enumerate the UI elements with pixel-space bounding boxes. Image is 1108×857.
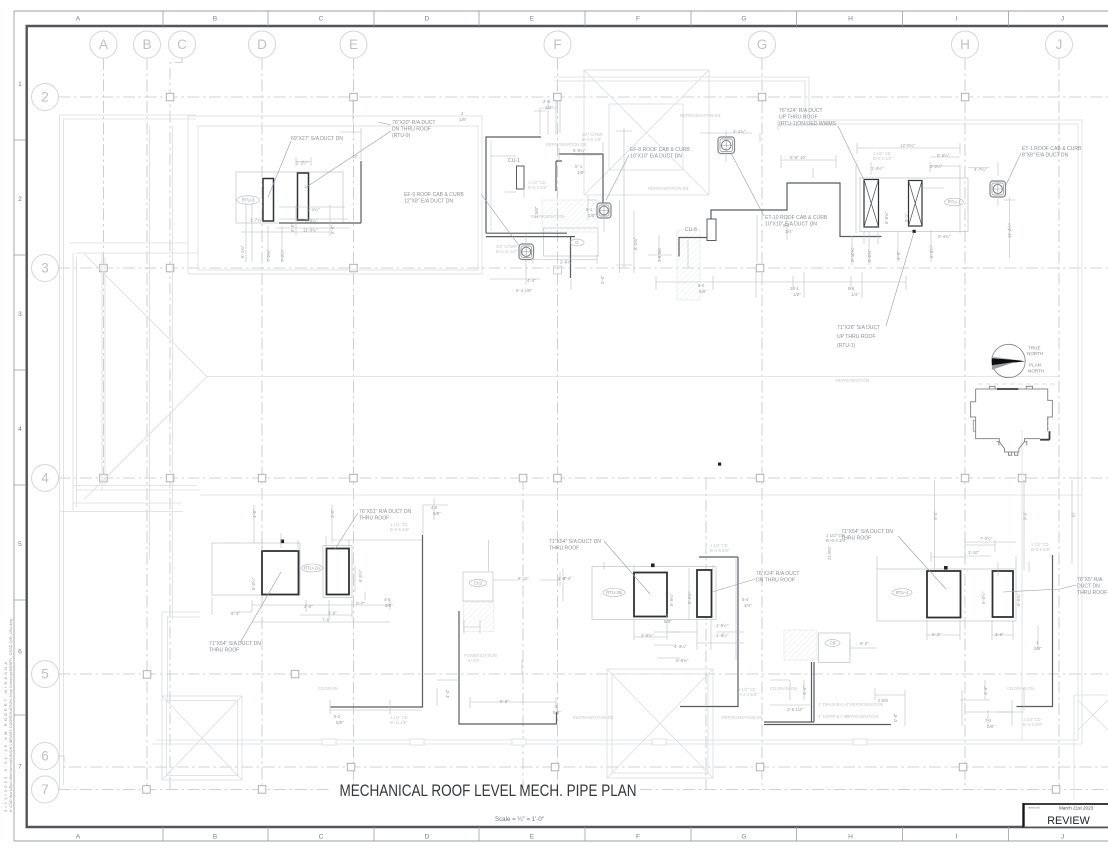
svg-text:CB: CB	[829, 641, 835, 646]
svg-text:10-1: 10-1	[790, 286, 799, 291]
svg-text:76"X51" R/A DUCT DN: 76"X51" R/A DUCT DN	[359, 509, 412, 515]
svg-text:7'-8": 7'-8"	[322, 618, 331, 623]
svg-text:B+2-6 5/8": B+2-6 5/8"	[710, 548, 730, 553]
svg-text:4'-4": 4'-4"	[445, 689, 450, 698]
svg-text:1'-5½": 1'-5½"	[716, 623, 729, 628]
svg-text:E: E	[349, 37, 358, 52]
svg-text:12"X8" E/A DUCT DN: 12"X8" E/A DUCT DN	[404, 199, 453, 205]
svg-text:8-0: 8-0	[698, 283, 705, 288]
svg-text:1" DRAIN B+1-8": 1" DRAIN B+1-8"	[818, 702, 850, 707]
svg-text:Scale = ¼" = 1'-0": Scale = ¼" = 1'-0"	[495, 816, 544, 823]
svg-text:69"X27" S/A DUCT DN: 69"X27" S/A DUCT DN	[291, 136, 343, 142]
svg-text:drawn/chk: drawn/chk	[1028, 806, 1041, 810]
svg-text:76"X24" R/A DUCT: 76"X24" R/A DUCT	[756, 571, 800, 577]
svg-text:5'-10¾": 5'-10¾"	[850, 247, 855, 262]
svg-text:B: B	[213, 16, 218, 23]
svg-text:1'-8½": 1'-8½"	[716, 633, 729, 638]
svg-text:3'-10": 3'-10"	[968, 550, 980, 555]
svg-text:A: A	[76, 16, 81, 23]
svg-text:E: E	[530, 16, 535, 23]
svg-text:5'-1: 5'-1	[575, 164, 583, 169]
svg-text:THRU ROOF: THRU ROOF	[209, 648, 239, 654]
svg-text:8'-2¾": 8'-2¾"	[633, 237, 638, 250]
svg-text:0'-5¾": 0'-5¾"	[676, 658, 689, 663]
svg-text:UP THRU ROOF: UP THRU ROOF	[837, 334, 876, 340]
svg-text:7'-2½": 7'-2½"	[280, 249, 285, 262]
svg-text:5-4: 5-4	[742, 597, 749, 602]
svg-text:11'-4½": 11'-4½"	[1007, 223, 1012, 238]
svg-text:D: D	[257, 37, 267, 52]
svg-text:REFRIGERATION: REFRIGERATION	[531, 214, 564, 219]
svg-text:C: C	[319, 16, 324, 23]
svg-text:10"X10" E/A DUCT DN: 10"X10" E/A DUCT DN	[765, 222, 817, 228]
svg-text:5/8": 5/8"	[553, 710, 561, 715]
svg-text:5'-4 1/8": 5'-4 1/8"	[516, 288, 533, 293]
svg-text:D: D	[425, 16, 430, 23]
svg-text:3: 3	[18, 311, 22, 318]
svg-text:H: H	[848, 834, 853, 841]
svg-text:9'-0": 9'-0"	[1023, 511, 1028, 520]
svg-text:7: 7	[41, 782, 49, 797]
svg-text:4'-9": 4'-9"	[896, 251, 901, 260]
svg-text:ET-1 ROOF CAB & CURB: ET-1 ROOF CAB & CURB	[1022, 146, 1082, 152]
svg-text:CU-8: CU-8	[685, 227, 697, 233]
svg-text:6'-0½": 6'-0½"	[358, 569, 363, 582]
svg-text:B+2-4 5/8": B+2-4 5/8"	[738, 692, 758, 697]
svg-text:CU-1: CU-1	[508, 158, 520, 164]
svg-text:4'-4": 4'-4"	[527, 278, 536, 283]
svg-text:9'-0": 9'-0"	[933, 511, 938, 520]
svg-text:RTU-4: RTU-4	[896, 590, 909, 595]
svg-text:NORTH: NORTH	[1027, 351, 1043, 356]
svg-text:5/8": 5/8"	[433, 511, 441, 516]
svg-text:5: 5	[18, 541, 22, 548]
svg-text:RTU-3: RTU-3	[242, 198, 255, 203]
svg-text:G: G	[741, 834, 746, 841]
svg-text:7: 7	[18, 764, 22, 771]
svg-text:1'-0": 1'-0"	[252, 509, 257, 518]
svg-text:B+2-0 5/8": B+2-0 5/8"	[1023, 722, 1043, 727]
svg-text:G: G	[575, 240, 579, 245]
svg-text:CD DRAIN ON: CD DRAIN ON	[1007, 686, 1034, 691]
svg-text:11'-0¾": 11'-0¾"	[303, 228, 318, 233]
svg-text:TRUE: TRUE	[1028, 346, 1041, 351]
svg-text:EF-8 ROOF CAB & CURB: EF-8 ROOF CAB & CURB	[630, 147, 690, 153]
svg-text:8+3-8': 8+3-8'	[468, 658, 480, 663]
svg-text:B+0-6 5/8": B+0-6 5/8"	[1031, 547, 1051, 552]
svg-text:DN THRU ROOF: DN THRU ROOF	[392, 127, 431, 133]
svg-text:J: J	[1061, 834, 1064, 841]
svg-text:1'-0": 1'-0"	[330, 509, 335, 518]
svg-text:RTU-2A: RTU-2A	[304, 566, 320, 571]
svg-text:DN THRU ROOF: DN THRU ROOF	[756, 578, 795, 584]
svg-text:G: G	[757, 37, 768, 52]
svg-text:4'-8¾": 4'-8¾"	[641, 633, 654, 638]
svg-text:71"X26" S/A DUCT: 71"X26" S/A DUCT	[837, 325, 880, 331]
svg-text:12': 12'	[352, 154, 358, 159]
svg-text:RTU-2B: RTU-2B	[606, 590, 622, 595]
svg-text:CD DRAIN ON: CD DRAIN ON	[770, 686, 797, 691]
svg-text:I: I	[956, 16, 958, 23]
svg-text:4'-7¼": 4'-7¼"	[974, 167, 987, 172]
svg-text:76"X20" R/A DUCT: 76"X20" R/A DUCT	[392, 120, 436, 126]
svg-text:71"X54" S/A DUCT DN: 71"X54" S/A DUCT DN	[209, 641, 261, 647]
svg-text:0'-8": 0'-8"	[893, 713, 898, 722]
svg-text:5/8": 5/8"	[336, 720, 344, 725]
svg-text:6'-5¼": 6'-5¼"	[669, 593, 674, 606]
svg-text:5'-6": 5'-6"	[290, 223, 295, 232]
svg-text:March 21st 2023: March 21st 2023	[1059, 806, 1094, 811]
svg-text:4-5: 4-5	[431, 505, 438, 510]
svg-text:A: A	[76, 834, 81, 841]
svg-text:8'-11": 8'-11"	[518, 576, 529, 581]
svg-text:6'-0¾": 6'-0¾"	[1016, 593, 1021, 606]
svg-text:71"X54" S/A DUCT DN: 71"X54" S/A DUCT DN	[549, 539, 601, 545]
svg-text:1'-4½": 1'-4½"	[871, 166, 884, 171]
svg-text:12'-0¼": 12'-0¼"	[900, 143, 915, 148]
svg-text:4: 4	[18, 426, 22, 433]
svg-text:K:\CAD Work\Epic Mechanical\UN: K:\CAD Work\Epic Mechanical\UNION LIBRAR…	[9, 619, 13, 812]
svg-text:B+1-11 1/2": B+1-11 1/2"	[496, 249, 518, 254]
svg-text:REFRIGERATION DN: REFRIGERATION DN	[722, 715, 762, 720]
svg-text:B: B	[142, 37, 151, 52]
svg-text:1'-2½": 1'-2½"	[296, 161, 309, 166]
svg-text:B+0-2 5/8": B+0-2 5/8"	[528, 185, 548, 190]
svg-text:A: A	[99, 37, 108, 52]
svg-text:6'-0½": 6'-0½"	[251, 577, 256, 590]
svg-text:NORTH: NORTH	[1028, 369, 1044, 374]
svg-text:THRU ROOF: THRU ROOF	[359, 516, 389, 522]
svg-text:REFRIGERATION: REFRIGERATION	[850, 702, 883, 707]
svg-text:B+3-6 1/8": B+3-6 1/8"	[582, 137, 602, 142]
svg-text:5'-6½": 5'-6½"	[937, 153, 950, 158]
svg-text:D: D	[425, 834, 430, 841]
svg-text:3/8": 3/8"	[1034, 646, 1042, 651]
svg-text:1/2": 1/2"	[545, 105, 553, 110]
svg-text:DUCT DN: DUCT DN	[1077, 584, 1100, 590]
svg-text:2'-6¾": 2'-6¾"	[560, 260, 573, 265]
svg-text:B+0-5 5/8": B+0-5 5/8"	[390, 527, 410, 532]
svg-text:3'-0": 3'-0"	[304, 604, 313, 609]
svg-text:10': 10'	[1071, 512, 1076, 518]
svg-text:6'-8¾": 6'-8¾"	[884, 211, 889, 224]
svg-text:5'-1¼": 5'-1¼"	[307, 207, 320, 212]
svg-text:7-4: 7-4	[985, 718, 992, 723]
svg-text:4'-4¾": 4'-4¾"	[733, 129, 746, 134]
svg-text:8-6: 8-6	[848, 286, 855, 291]
svg-text:6'-8¾": 6'-8¾"	[305, 219, 318, 224]
svg-text:F: F	[553, 37, 561, 52]
svg-text:REFRIGERATION DN: REFRIGERATION DN	[648, 186, 688, 191]
svg-text:1" DWPR B+7-8": 1" DWPR B+7-8"	[818, 714, 850, 719]
svg-text:4'-4": 4'-4"	[983, 686, 988, 695]
svg-text:7'-2½": 7'-2½"	[980, 536, 993, 541]
svg-text:H: H	[848, 16, 853, 23]
svg-text:(RTU-1)ON OED WWMS: (RTU-1)ON OED WWMS	[779, 121, 837, 127]
svg-text:6'-9": 6'-9"	[330, 225, 335, 234]
svg-text:6'-6¾": 6'-6¾"	[687, 591, 692, 604]
svg-text:ET-10 ROOF CAB & CURB: ET-10 ROOF CAB & CURB	[765, 215, 828, 221]
svg-text:8'-8": 8'-8"	[500, 699, 509, 704]
svg-text:1/4": 1/4"	[851, 292, 859, 297]
svg-text:B+0-4 3/4": B+0-4 3/4"	[826, 538, 847, 543]
svg-text:6'-5½": 6'-5½"	[929, 245, 934, 258]
svg-text:5/8": 5/8"	[699, 289, 707, 294]
svg-text:F: F	[636, 834, 640, 841]
svg-text:REFRIGERATION: REFRIGERATION	[845, 714, 878, 719]
svg-text:REFRIGERATION DN: REFRIGERATION DN	[573, 715, 613, 720]
svg-text:6: 6	[41, 749, 49, 764]
svg-text:4'-4": 4'-4"	[802, 686, 807, 695]
svg-text:2'-6: 2'-6	[543, 99, 551, 104]
svg-text:5/8": 5/8"	[385, 603, 393, 608]
svg-text:6'-0¾": 6'-0¾"	[867, 249, 872, 262]
svg-text:B: B	[213, 834, 218, 841]
svg-text:3'-8": 3'-8"	[995, 632, 1004, 637]
svg-text:3/4": 3/4"	[785, 229, 793, 234]
svg-text:6'-1¾": 6'-1¾"	[240, 245, 245, 258]
svg-text:4-6: 4-6	[384, 597, 391, 602]
svg-text:CC2: CC2	[474, 581, 483, 586]
svg-text:5'-1": 5'-1"	[904, 213, 909, 222]
svg-text:B+11 1/8": B+11 1/8"	[390, 720, 408, 725]
svg-text:2'-0": 2'-0"	[600, 275, 605, 284]
svg-text:PLAN: PLAN	[1029, 363, 1041, 368]
svg-text:76"X5" R/A: 76"X5" R/A	[1077, 577, 1103, 583]
svg-text:5'-6" 10': 5'-6" 10'	[790, 155, 806, 160]
svg-text:2'-6 1/2": 2'-6 1/2"	[787, 707, 804, 712]
svg-text:REVIEW: REVIEW	[1047, 815, 1090, 827]
svg-text:6'-0½": 6'-0½"	[981, 591, 986, 604]
svg-text:H: H	[960, 37, 970, 52]
svg-text:REFRIGERATION: REFRIGERATION	[836, 378, 869, 383]
svg-text:7'-2¾": 7'-2¾"	[266, 249, 271, 262]
svg-text:REFRIGERATION DN: REFRIGERATION DN	[680, 113, 720, 118]
svg-text:1/8": 1/8"	[793, 292, 801, 297]
svg-text:C: C	[319, 834, 324, 841]
svg-text:0'-7": 0'-7"	[356, 601, 365, 606]
svg-text:G: G	[741, 16, 746, 23]
svg-text:2: 2	[41, 90, 49, 105]
svg-text:4'-3¼": 4'-3¼"	[674, 644, 687, 649]
svg-text:REFRIGERATION DN: REFRIGERATION DN	[546, 142, 586, 147]
svg-text:5'-3": 5'-3"	[932, 632, 941, 637]
svg-text:4'-4": 4'-4"	[558, 576, 567, 581]
svg-text:5/8": 5/8"	[664, 619, 672, 624]
svg-text:J: J	[1061, 16, 1064, 23]
svg-text:B+0-1 1/2": B+0-1 1/2"	[873, 156, 893, 161]
svg-text:5-2: 5-2	[334, 714, 341, 719]
svg-text:(RTU-9): (RTU-9)	[392, 133, 411, 139]
svg-text:MECHANICAL ROOF LEVEL MECH. PI: MECHANICAL ROOF LEVEL MECH. PIPE PLAN	[340, 782, 637, 800]
svg-text:1/8": 1/8"	[577, 170, 585, 175]
svg-text:1'-7¾": 1'-7¾"	[250, 218, 263, 223]
svg-text:RTU-1: RTU-1	[948, 200, 961, 205]
svg-text:2: 2	[18, 196, 22, 203]
svg-text:3'-9": 3'-9"	[328, 611, 337, 616]
svg-text:0'-4¾": 0'-4¾"	[938, 234, 951, 239]
svg-text:5-4: 5-4	[783, 223, 790, 228]
svg-text:8'-2": 8'-2"	[860, 641, 869, 646]
svg-text:1/8": 1/8"	[588, 213, 596, 218]
svg-text:8"X8" E/A DUCT DN: 8"X8" E/A DUCT DN	[1022, 153, 1069, 159]
svg-text:2'-2½": 2'-2½"	[930, 164, 943, 169]
svg-text:UP THRU ROOF: UP THRU ROOF	[779, 115, 818, 121]
svg-text:21-8¾": 21-8¾"	[827, 546, 832, 560]
svg-text:J: J	[1056, 37, 1063, 52]
svg-text:10"X10" E/A DUCT DN: 10"X10" E/A DUCT DN	[630, 154, 682, 160]
svg-text:C: C	[177, 37, 187, 52]
svg-text:6: 6	[18, 649, 22, 656]
svg-text:5/8": 5/8"	[987, 724, 995, 729]
svg-text:5-1: 5-1	[586, 207, 593, 212]
svg-text:1: 1	[18, 81, 22, 88]
svg-text:1-8 5/8: 1-8 5/8	[657, 248, 662, 262]
svg-text:CD DRAIN: CD DRAIN	[318, 686, 338, 691]
svg-text:F: F	[636, 16, 640, 23]
svg-text:EF-9 ROOF CAB & CURB: EF-9 ROOF CAB & CURB	[404, 192, 464, 198]
svg-text:3: 3	[41, 261, 49, 276]
svg-text:5: 5	[41, 667, 49, 682]
svg-text:THRU ROOF: THRU ROOF	[549, 546, 579, 552]
svg-text:I: I	[956, 834, 958, 841]
svg-text:E: E	[530, 834, 535, 841]
svg-text:THRU ROOF: THRU ROOF	[1077, 590, 1107, 596]
svg-text:1/8": 1/8"	[459, 117, 467, 122]
svg-text:4: 4	[41, 471, 49, 486]
svg-text:(RTU-1): (RTU-1)	[837, 343, 856, 349]
svg-text:71"X54" S/A DUCT DN: 71"X54" S/A DUCT DN	[841, 529, 893, 535]
svg-text:6'-5¾": 6'-5¾"	[573, 148, 586, 153]
svg-text:9'-3": 9'-3"	[231, 611, 240, 616]
svg-text:3/4": 3/4"	[744, 603, 752, 608]
svg-text:76"X24" R/A DUCT: 76"X24" R/A DUCT	[779, 108, 823, 114]
